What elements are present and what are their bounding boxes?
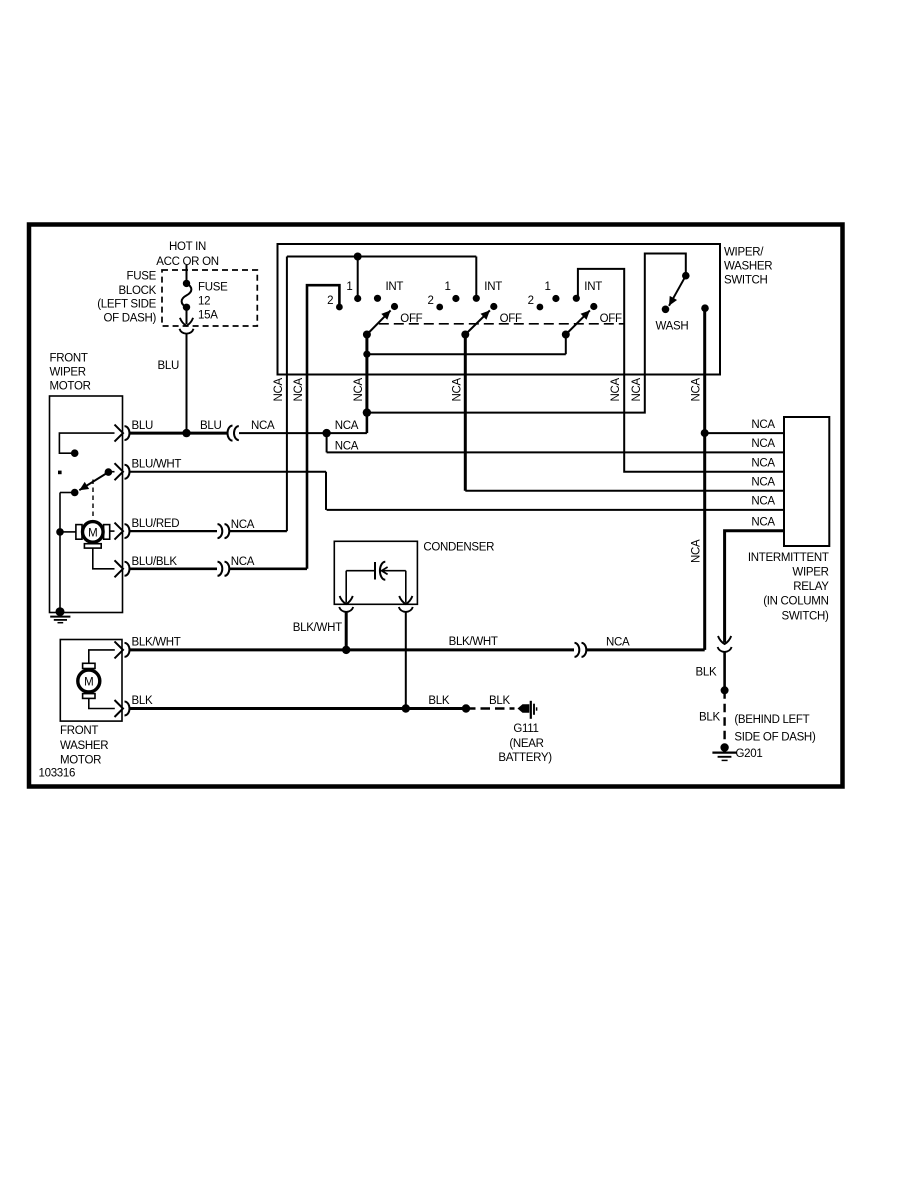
svg-text:MOTOR: MOTOR: [60, 755, 101, 767]
svg-text:HOT IN: HOT IN: [169, 241, 206, 253]
svg-text:BLK: BLK: [699, 711, 720, 723]
svg-text:NCA: NCA: [751, 477, 775, 489]
svg-text:INT: INT: [584, 281, 602, 293]
svg-text:FRONT: FRONT: [60, 725, 98, 737]
svg-text:NCA: NCA: [751, 438, 775, 450]
svg-text:NCA: NCA: [451, 377, 463, 401]
svg-text:BLU: BLU: [132, 420, 153, 432]
svg-text:BLK: BLK: [428, 695, 449, 707]
svg-text:BLU: BLU: [200, 420, 221, 432]
svg-text:WIPER: WIPER: [50, 367, 86, 379]
svg-text:NCA: NCA: [231, 519, 255, 531]
svg-text:NCA: NCA: [293, 377, 305, 401]
svg-text:BLU/BLK: BLU/BLK: [132, 556, 178, 568]
svg-text:NCA: NCA: [610, 377, 622, 401]
svg-text:NCA: NCA: [691, 377, 703, 401]
svg-text:OF DASH): OF DASH): [103, 313, 156, 325]
svg-text:WASH: WASH: [656, 321, 689, 333]
svg-text:15A: 15A: [198, 310, 218, 322]
svg-text:(IN COLUMN: (IN COLUMN: [763, 596, 828, 608]
svg-text:BLK: BLK: [696, 666, 717, 678]
svg-text:M: M: [88, 527, 97, 539]
svg-text:1: 1: [545, 281, 551, 293]
svg-text:WIPER/: WIPER/: [724, 247, 764, 259]
svg-text:INTERMITTENT: INTERMITTENT: [748, 552, 829, 564]
svg-text:BLK/WHT: BLK/WHT: [132, 637, 181, 649]
svg-text:103316: 103316: [39, 768, 76, 780]
svg-text:FUSE: FUSE: [127, 271, 157, 283]
svg-text:CONDENSER: CONDENSER: [423, 541, 494, 553]
svg-text:NCA: NCA: [631, 377, 643, 401]
svg-text:BLK: BLK: [489, 695, 510, 707]
svg-text:SWITCH: SWITCH: [724, 275, 768, 287]
svg-text:SIDE OF DASH): SIDE OF DASH): [734, 731, 816, 743]
svg-text:BLK/WHT: BLK/WHT: [293, 622, 342, 634]
svg-text:BLU: BLU: [158, 360, 179, 372]
svg-text:BLK: BLK: [132, 695, 153, 707]
svg-text:WIPER: WIPER: [792, 567, 828, 579]
svg-text:NCA: NCA: [751, 517, 775, 529]
svg-text:12: 12: [198, 296, 210, 308]
svg-text:NCA: NCA: [751, 419, 775, 431]
svg-text:INT: INT: [484, 281, 502, 293]
svg-text:MOTOR: MOTOR: [50, 381, 91, 393]
svg-text:NCA: NCA: [273, 377, 285, 401]
svg-text:NCA: NCA: [231, 556, 255, 568]
svg-text:FRONT: FRONT: [50, 353, 88, 365]
svg-text:NCA: NCA: [251, 420, 275, 432]
svg-text:BLU/WHT: BLU/WHT: [132, 459, 182, 471]
svg-text:WASHER: WASHER: [724, 261, 772, 273]
svg-text:NCA: NCA: [751, 496, 775, 508]
svg-text:NCA: NCA: [335, 420, 359, 432]
svg-text:(LEFT SIDE: (LEFT SIDE: [97, 299, 156, 311]
svg-text:INT: INT: [386, 281, 404, 293]
svg-text:(NEAR: (NEAR: [509, 738, 543, 750]
svg-text:2: 2: [427, 295, 433, 307]
svg-text:FUSE: FUSE: [198, 282, 228, 294]
svg-text:G111: G111: [513, 723, 538, 735]
svg-text:1: 1: [346, 281, 352, 293]
svg-text:M: M: [84, 676, 93, 688]
svg-text:1: 1: [445, 281, 451, 293]
svg-text:(BEHIND LEFT: (BEHIND LEFT: [734, 714, 809, 726]
svg-text:BLOCK: BLOCK: [119, 285, 157, 297]
svg-text:2: 2: [528, 295, 534, 307]
svg-text:2: 2: [327, 295, 333, 307]
svg-text:BLU/RED: BLU/RED: [132, 518, 180, 530]
svg-text:BLK/WHT: BLK/WHT: [449, 636, 498, 648]
svg-text:WASHER: WASHER: [60, 740, 108, 752]
svg-text:NCA: NCA: [335, 440, 359, 452]
svg-text:SWITCH): SWITCH): [782, 611, 830, 623]
svg-text:NCA: NCA: [691, 539, 703, 563]
svg-text:NCA: NCA: [353, 377, 365, 401]
svg-text:NCA: NCA: [751, 458, 775, 470]
svg-text:BATTERY): BATTERY): [498, 752, 552, 764]
svg-text:RELAY: RELAY: [793, 581, 829, 593]
svg-text:G201: G201: [736, 748, 763, 760]
svg-text:NCA: NCA: [606, 636, 630, 648]
